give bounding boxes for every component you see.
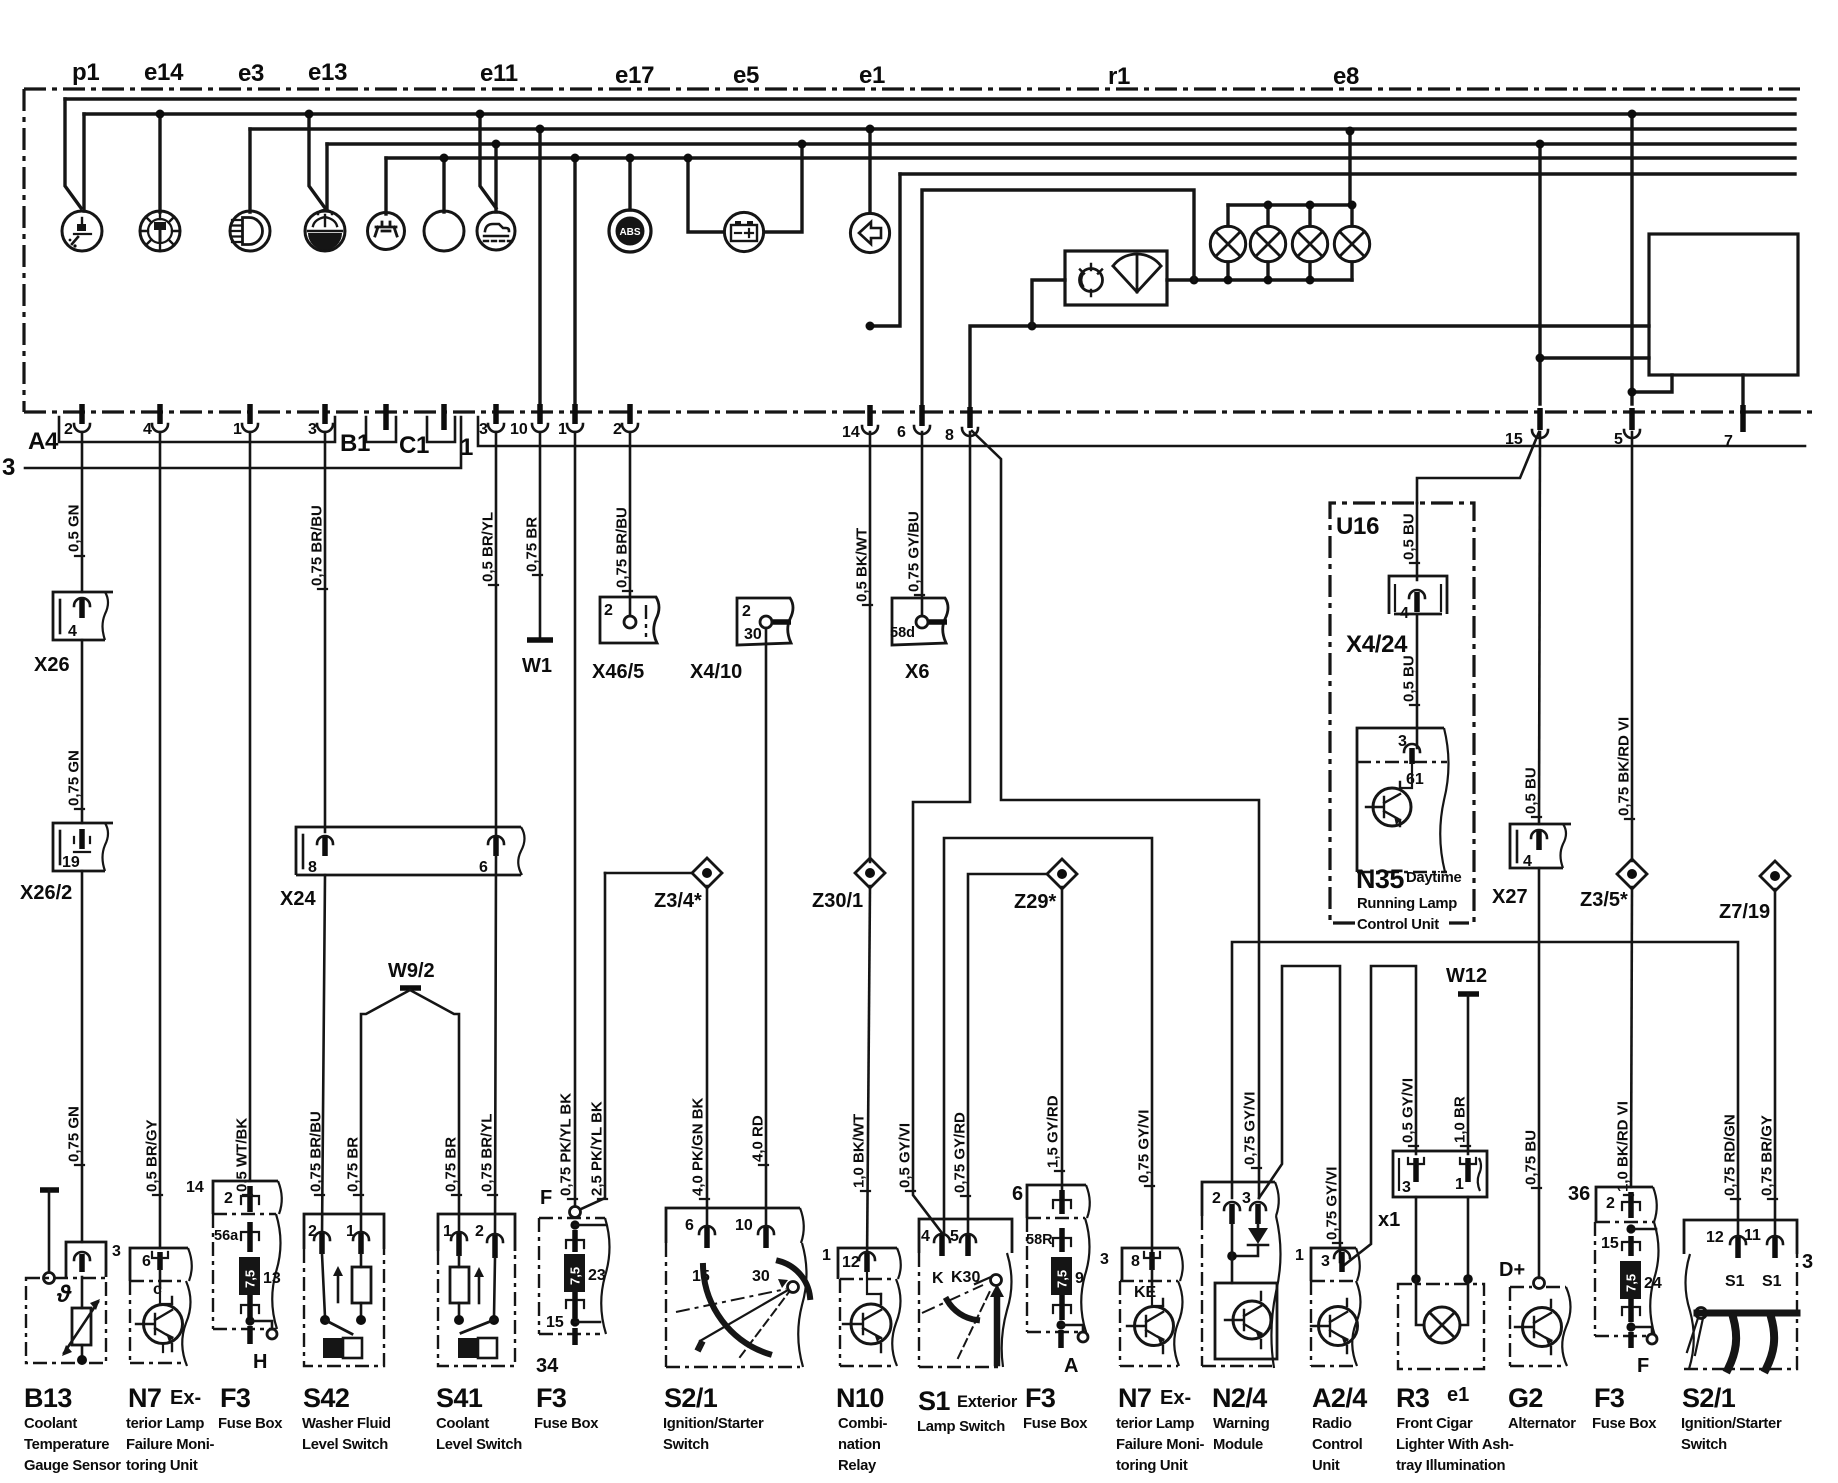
svg-text:x1: x1 (1378, 1209, 1400, 1231)
bus line 6 (900, 172, 1795, 175)
svg-text:0,5 GY/VI: 0,5 GY/VI (1400, 1078, 1417, 1143)
svg-text:2: 2 (613, 421, 622, 438)
svg-text:8: 8 (308, 859, 317, 876)
svg-text:0,5 BU: 0,5 BU (1523, 767, 1540, 814)
svg-text:S42: S42 (303, 1383, 349, 1413)
junction e11-bus2 (476, 110, 485, 119)
junction pin15 wire (1536, 354, 1545, 363)
ground rail 3 (25, 417, 461, 468)
wire e3 pin1 down to F3 (249, 432, 252, 1181)
ground W1 (522, 640, 553, 677)
svg-text:Lamp Switch: Lamp Switch (917, 1419, 1005, 1435)
svg-text:1,0 BK/RD VI: 1,0 BK/RD VI (1615, 1101, 1632, 1192)
wire pin15 straight down to X27 (1539, 432, 1540, 824)
svg-text:A2/4: A2/4 (1312, 1383, 1367, 1413)
svg-text:N7: N7 (128, 1383, 161, 1413)
svg-text:Level Switch: Level Switch (302, 1437, 388, 1453)
junction R3 right (1463, 1274, 1473, 1284)
fuse box F3 (36) (1568, 1183, 1662, 1377)
indicator e13 washer fluid (305, 210, 345, 251)
connector X4/10 (737, 598, 793, 645)
wire e11 to bus2 (480, 114, 496, 208)
svg-text:Warning: Warning (1213, 1416, 1270, 1432)
svg-text:3: 3 (1402, 1179, 1411, 1196)
svg-text:e13: e13 (308, 59, 347, 86)
svg-text:Control: Control (1312, 1437, 1363, 1453)
svg-text:Coolant: Coolant (436, 1416, 489, 1432)
connector X46/5 (600, 597, 659, 643)
pin 1 (F3-34) (558, 404, 583, 438)
svg-text:e3: e3 (238, 60, 264, 87)
svg-text:terior Lamp: terior Lamp (126, 1416, 204, 1432)
svg-text:56a: 56a (214, 1228, 239, 1244)
r1 wiper motor symbol (1080, 264, 1103, 296)
indicator e11 coolant level (477, 212, 515, 250)
transistor N2/4 (1225, 1292, 1271, 1348)
svg-text:Alternator: Alternator (1508, 1416, 1576, 1432)
svg-text:Lighter With Ash-: Lighter With Ash- (1396, 1437, 1514, 1453)
wire e5 right lead to bus4 (765, 144, 802, 232)
svg-text:7,5: 7,5 (243, 1270, 258, 1288)
svg-text:F3: F3 (536, 1383, 567, 1413)
wire p1 to bus1 (65, 99, 81, 208)
lamp stubs bottom (1228, 262, 1352, 280)
wire pin6 riser (922, 190, 1194, 412)
transistor N7-2 (1127, 1290, 1174, 1353)
svg-text:7,5: 7,5 (1055, 1270, 1070, 1288)
control unit N7 (2) KE exterior lamp failure monitoring (1100, 1248, 1183, 1366)
svg-text:X4/10: X4/10 (690, 661, 742, 683)
junction lamp1 bottom (1224, 276, 1233, 285)
wire e17 to bus5 (628, 158, 631, 210)
wire pin1 to bus5 (573, 158, 576, 404)
junction e1-bus3 (866, 125, 875, 134)
svg-text:4: 4 (143, 421, 152, 438)
wire pin5 down to Z3/5* (1631, 432, 1634, 861)
svg-text:3: 3 (1321, 1253, 1330, 1270)
plug Z7/19 (1719, 861, 1790, 923)
svg-text:0,75 RD/GN: 0,75 RD/GN (1722, 1114, 1739, 1196)
indicator e14 lamp check (140, 211, 180, 251)
switch S42 washer fluid level (304, 1214, 384, 1366)
control unit N7 (1) exterior lamp failure monitoring (130, 1248, 192, 1366)
switch S41 coolant level (438, 1214, 515, 1366)
svg-text:7: 7 (1724, 433, 1733, 450)
svg-text:X26/2: X26/2 (20, 882, 72, 904)
svg-text:Unit: Unit (1312, 1458, 1340, 1474)
diode N2/4 (1227, 1224, 1268, 1283)
svg-text:N10: N10 (836, 1383, 884, 1413)
wire pin1 down to F3-34 (574, 432, 577, 1206)
svg-text:0,75 GY/BU: 0,75 GY/BU (906, 511, 923, 592)
wire p1 to bus2 (82, 114, 85, 211)
svg-text:4: 4 (1523, 853, 1532, 870)
svg-text:Ex-: Ex- (1160, 1387, 1191, 1409)
hairpin A2/4 pin3 to x1 pin3 (1343, 966, 1416, 1266)
wire into X4/24 (1416, 503, 1419, 580)
junction pin5 wire (1628, 388, 1637, 397)
svg-text:toring Unit: toring Unit (126, 1458, 198, 1474)
svg-text:e1: e1 (859, 62, 885, 89)
connector X4/24 (1389, 576, 1447, 622)
pin 2 (e17/X46) (613, 404, 638, 438)
svg-text:Ex-: Ex- (170, 1387, 201, 1409)
wire e5 left lead to bus5 (688, 158, 723, 232)
svg-text:4: 4 (1400, 605, 1409, 622)
wire label tick marks (75, 556, 1777, 1243)
svg-text:Level Switch: Level Switch (436, 1437, 522, 1453)
svg-text:1,0 BR: 1,0 BR (1452, 1096, 1469, 1143)
plug Z29* (1014, 859, 1077, 913)
svg-text:0,5 GY/VI: 0,5 GY/VI (897, 1123, 914, 1188)
svg-text:Control Unit: Control Unit (1357, 917, 1439, 933)
wire lamps to bus3 (1348, 131, 1351, 205)
svg-text:U16: U16 (1336, 513, 1379, 540)
pin B1 bar (383, 404, 389, 430)
svg-text:15: 15 (1601, 1235, 1619, 1252)
sensor B13 coolant temperature gauge sensor (26, 1190, 121, 1365)
wire Z3/4 down to S2/1 pin6 (706, 886, 709, 1229)
svg-text:2,5 PK/YL BK: 2,5 PK/YL BK (589, 1101, 606, 1196)
hairpin N2/4 pin3 to A2/4 pin3 (1259, 966, 1340, 1262)
svg-text:X27: X27 (1492, 886, 1528, 908)
pin 2 (p1) (64, 404, 90, 438)
svg-text:2: 2 (604, 602, 613, 619)
wire S1 pin5 to Z29* (968, 874, 1047, 1238)
wire pin15 to bus4 (1538, 144, 1541, 404)
switch S1 exterior lamp switch (919, 1219, 1012, 1367)
junction icon6-bus5 (440, 154, 449, 163)
svg-text:19: 19 (62, 854, 80, 871)
indicator e5 battery charge (724, 212, 763, 251)
svg-text:X4/24: X4/24 (1346, 631, 1408, 658)
transistor A2/4 (1311, 1299, 1358, 1353)
junction e5-bus4 (798, 140, 807, 149)
svg-text:58d: 58d (890, 625, 915, 641)
svg-text:F3: F3 (1594, 1383, 1625, 1413)
switch S2/1 ignition/starter (right) (1684, 1220, 1813, 1369)
svg-text:F3: F3 (1025, 1383, 1056, 1413)
wire e14 pin4 down to N7 (159, 432, 162, 1248)
pin 1 (e3) (233, 404, 258, 438)
svg-text:2: 2 (475, 1223, 484, 1240)
svg-text:23: 23 (588, 1267, 606, 1284)
svg-text:Z3/5*: Z3/5* (1580, 889, 1628, 911)
svg-text:8: 8 (945, 427, 954, 444)
svg-text:3: 3 (479, 421, 488, 438)
svg-text:e11: e11 (480, 60, 518, 87)
N2/4 inner box (1215, 1283, 1277, 1359)
r1 wiper control box (1065, 251, 1167, 305)
wire e11 to bus4 (494, 144, 497, 212)
svg-text:6: 6 (142, 1253, 151, 1270)
svg-text:K: K (932, 1270, 944, 1287)
wire pin5 to bus2 (1630, 114, 1633, 404)
svg-text:7,5: 7,5 (1624, 1274, 1639, 1292)
connector strip right bracket line (478, 417, 1805, 446)
connector X24 (296, 827, 525, 876)
svg-text:12: 12 (1706, 1229, 1724, 1246)
svg-text:2: 2 (64, 421, 73, 438)
junction e14-bus2 (156, 110, 165, 119)
wire W1/pin10 to bus3 (538, 129, 541, 404)
connector x1 (1393, 1151, 1487, 1197)
svg-text:Ignition/Starter: Ignition/Starter (663, 1416, 764, 1432)
svg-text:Module: Module (1213, 1437, 1263, 1453)
pin C1 bar (441, 404, 447, 430)
svg-text:Switch: Switch (1681, 1437, 1727, 1453)
svg-text:F3: F3 (220, 1383, 251, 1413)
svg-text:0,75 BR/BU: 0,75 BR/BU (308, 1111, 325, 1192)
wire e3 to bus3 (248, 129, 251, 212)
pin 4 (e14) (143, 404, 168, 438)
wire r1 left input (1032, 280, 1065, 326)
svg-text:0,75 BR: 0,75 BR (443, 1137, 460, 1192)
svg-text:0,75 PK/YL BK: 0,75 PK/YL BK (558, 1093, 575, 1196)
wire bus6 corner down to e1 wire (870, 174, 900, 326)
svg-text:0,75 BR/BU: 0,75 BR/BU (614, 507, 631, 588)
wire e14 to bus2 (158, 114, 161, 212)
svg-text:F: F (540, 1187, 552, 1209)
svg-text:0,75 BU: 0,75 BU (1523, 1130, 1540, 1185)
wire x1 pin3 to R3 lamp (1415, 1197, 1418, 1277)
lamp L2 (1250, 226, 1285, 261)
svg-text:Coolant: Coolant (24, 1416, 77, 1432)
indicator blank circle (424, 211, 464, 251)
svg-text:W1: W1 (522, 655, 552, 677)
svg-text:Daytime: Daytime (1406, 870, 1462, 886)
lamp L1 (1210, 226, 1245, 261)
lamp top bus (1228, 203, 1352, 206)
svg-text:0,75 GY/VI: 0,75 GY/VI (1136, 1110, 1153, 1183)
junction e17-bus5 (626, 154, 635, 163)
svg-text:B13: B13 (24, 1383, 72, 1413)
lamp R3 cigar lighter box (1398, 1279, 1484, 1369)
connector X26 (53, 592, 113, 640)
transistor G2 (1515, 1300, 1562, 1354)
svg-text:p1: p1 (72, 59, 99, 86)
svg-text:30: 30 (752, 1268, 770, 1285)
svg-text:3: 3 (1100, 1251, 1109, 1268)
pin 5 (1614, 408, 1640, 448)
svg-text:N7: N7 (1118, 1383, 1151, 1413)
svg-text:Z3/4*: Z3/4* (654, 890, 702, 912)
wire pin15 diagonal into U16 (1417, 432, 1539, 503)
svg-text:9: 9 (1075, 1270, 1084, 1287)
svg-text:e8: e8 (1333, 63, 1359, 90)
junction e1 wire/bus6 jog (866, 322, 875, 331)
transistor N35 (1366, 764, 1412, 826)
pin 10 (W1) (510, 404, 548, 438)
control unit U16 dash-dot box (1330, 503, 1474, 923)
wire X27 down to G2 D+ (1538, 868, 1541, 1278)
instrument cluster dash-dot border bottom (24, 410, 1814, 413)
svg-text:C1: C1 (399, 432, 429, 459)
svg-text:5: 5 (950, 1228, 959, 1245)
svg-text:0,5 BU: 0,5 BU (1401, 655, 1418, 702)
svg-text:3: 3 (1242, 1190, 1251, 1207)
svg-text:Front Cigar: Front Cigar (1396, 1416, 1473, 1432)
wire e1 pin14 down through Z30/1 to N10 (869, 432, 872, 862)
r1 wiper arc symbol (1113, 254, 1161, 292)
svg-text:Z29*: Z29* (1014, 891, 1056, 913)
junction lamp4 top (1348, 201, 1357, 210)
svg-text:B1: B1 (340, 430, 370, 457)
junction e13-bus2 (305, 110, 314, 119)
svg-text:0,5 GN: 0,5 GN (66, 504, 83, 552)
svg-text:Running Lamp: Running Lamp (1357, 896, 1457, 912)
wire X24 pin6 down to S41 pin2 (495, 856, 496, 1238)
indicator p1 coolant temp gauge (62, 211, 102, 251)
svg-text:1: 1 (1295, 1247, 1304, 1264)
wire X26 to X26/2 (81, 640, 84, 823)
svg-text:Failure Moni-: Failure Moni- (1116, 1437, 1205, 1453)
svg-text:0,5 BU: 0,5 BU (1401, 513, 1418, 560)
alternator G2 (1510, 1278, 1571, 1367)
svg-text:6: 6 (685, 1217, 694, 1234)
pin 3 (e13) (308, 404, 333, 438)
svg-text:N35: N35 (1356, 864, 1404, 894)
ground W9/2 (361, 960, 459, 1236)
svg-text:13: 13 (263, 1270, 281, 1287)
radio control unit A2/4 (1295, 1247, 1361, 1366)
wire icon5 to bus5 (384, 158, 387, 214)
svg-text:S1: S1 (1725, 1273, 1745, 1290)
svg-text:toring Unit: toring Unit (1116, 1458, 1188, 1474)
junction pin5-bus2 (1628, 110, 1637, 119)
svg-text:e17: e17 (615, 62, 654, 89)
fuse box F3 (34) (536, 1187, 610, 1377)
wire Z30/1 to N10 pin12 (867, 886, 870, 1263)
svg-text:Fuse Box: Fuse Box (534, 1416, 599, 1432)
svg-text:R3: R3 (1396, 1383, 1430, 1413)
bus line 2 (84, 112, 1795, 115)
junction pin15-bus4 (1536, 140, 1545, 149)
plug Z3/4* (605, 858, 722, 912)
wire e1 to bus3 (868, 129, 871, 213)
junction lamp2 top (1264, 201, 1273, 210)
svg-text:3: 3 (112, 1243, 121, 1260)
junction lamp2 bottom (1264, 276, 1273, 285)
svg-text:34: 34 (536, 1355, 559, 1377)
wire e17 pin2 down to X46/5 (629, 432, 632, 616)
svg-text:Washer Fluid: Washer Fluid (302, 1416, 391, 1432)
svg-text:Relay: Relay (838, 1458, 877, 1474)
svg-text:A4: A4 (28, 428, 59, 455)
svg-text:H: H (253, 1351, 267, 1373)
svg-text:D+: D+ (1499, 1259, 1525, 1281)
svg-text:Switch: Switch (663, 1437, 709, 1453)
junction lamp3 bottom (1306, 276, 1315, 285)
svg-text:S1: S1 (1762, 1273, 1782, 1290)
indicator e1 turn signal arrow (850, 213, 889, 252)
junction R3 left (1411, 1274, 1421, 1284)
wire N2/4 pin2 to S2/1 pin12 (long) (1232, 942, 1738, 1236)
svg-text:0,75 BR/YL: 0,75 BR/YL (479, 1114, 496, 1192)
svg-text:A: A (1064, 1355, 1078, 1377)
transistor N7-1 (136, 1288, 183, 1352)
pin 15 (1505, 408, 1548, 448)
wire S1 pin4 to N7-KE net (944, 838, 1152, 1263)
wire p1 pin2 down to X26 (81, 432, 84, 592)
svg-text:1: 1 (233, 421, 242, 438)
svg-text:6: 6 (897, 424, 906, 441)
svg-text:0,75 GY/VI: 0,75 GY/VI (1324, 1167, 1341, 1240)
svg-text:1: 1 (1455, 1176, 1464, 1193)
junction lamp3 top (1306, 201, 1315, 210)
wire X4/10 down to S2/1 pin10 (765, 628, 768, 1229)
lamp L4 (1334, 226, 1369, 261)
svg-text:X46/5: X46/5 (592, 661, 644, 683)
svg-text:2: 2 (742, 603, 751, 620)
connector bracket C1 (427, 417, 455, 442)
svg-text:Failure Moni-: Failure Moni- (126, 1437, 215, 1453)
pin 3 (e11) (479, 404, 504, 438)
bus line 3 (250, 127, 1795, 130)
svg-text:Temperature: Temperature (24, 1437, 109, 1453)
junction r1 feed (1028, 322, 1037, 331)
wire X4/24 to N35 (1416, 614, 1419, 748)
wire e11 pin3 down to X24 pin6 (495, 432, 498, 836)
svg-text:S41: S41 (436, 1383, 483, 1413)
svg-text:F: F (1637, 1355, 1649, 1377)
svg-text:1: 1 (558, 421, 567, 438)
indicator e17 ABS (609, 210, 651, 252)
wire pin8 riser to r1 and right box (970, 326, 1649, 412)
svg-text:W9/2: W9/2 (388, 960, 435, 982)
svg-text:10: 10 (510, 421, 528, 438)
svg-text:4,0 PK/GN BK: 4,0 PK/GN BK (690, 1097, 707, 1196)
svg-text:Combi-: Combi- (838, 1416, 888, 1432)
svg-text:2: 2 (224, 1190, 233, 1207)
svg-text:N2/4: N2/4 (1212, 1383, 1267, 1413)
svg-text:0,75 GY/RD: 0,75 GY/RD (952, 1112, 969, 1193)
svg-text:10: 10 (735, 1217, 753, 1234)
svg-text:Fuse Box: Fuse Box (1023, 1416, 1088, 1432)
svg-text:tray Illumination: tray Illumination (1396, 1458, 1505, 1474)
svg-text:G2: G2 (1508, 1383, 1543, 1413)
instrument cluster dash-dot border left (22, 89, 25, 412)
svg-text:3: 3 (2, 454, 15, 481)
wire pin15 junction into right box (1540, 356, 1649, 359)
svg-text:S2/1: S2/1 (1682, 1383, 1736, 1413)
svg-text:15: 15 (1505, 431, 1523, 448)
junction r1-lampbus (1190, 276, 1199, 285)
svg-text:0,75 BR: 0,75 BR (345, 1137, 362, 1192)
fuse box F3 (H) (186, 1179, 282, 1373)
control unit N35 box (1357, 728, 1449, 872)
junction pin10-bus3 (536, 125, 545, 134)
svg-text:1,0 BK/WT: 1,0 BK/WT (851, 1114, 868, 1188)
svg-text:12: 12 (842, 1254, 860, 1271)
wire pin8 down-straight to S1 pin4 (913, 432, 970, 1233)
bus line 4 (327, 142, 1795, 145)
svg-text:0,75 BK/RD VI: 0,75 BK/RD VI (1616, 717, 1633, 816)
svg-text:X6: X6 (905, 661, 929, 683)
svg-text:11: 11 (1744, 1227, 1761, 1244)
switch S2/1 ignition/starter (left) (666, 1208, 810, 1367)
svg-text:2: 2 (1212, 1190, 1221, 1207)
svg-text:0,75 BR/GY: 0,75 BR/GY (1759, 1115, 1776, 1196)
indicator e3 headlamp (230, 211, 270, 251)
svg-text:14: 14 (842, 424, 860, 441)
svg-text:Radio: Radio (1312, 1416, 1352, 1432)
svg-text:0,5 BR/YL: 0,5 BR/YL (480, 512, 497, 582)
wire e13 to bus2 (309, 114, 325, 208)
svg-text:e5: e5 (733, 62, 759, 89)
wire e13 pin3 down to X24 (324, 432, 327, 832)
wire Z7/19 down to S2/1 pin11 (1774, 889, 1777, 1236)
